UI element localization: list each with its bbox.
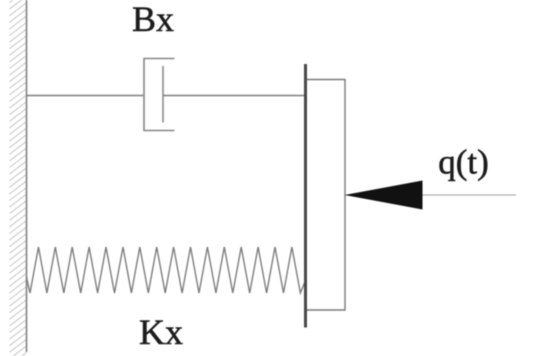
wall <box>26 0 28 352</box>
damper Bx piston <box>162 66 164 123</box>
wire rod left (wall to damper) <box>27 95 145 97</box>
damper Bx cylinder <box>144 59 175 131</box>
svg-text:q(t): q(t) <box>438 142 489 181</box>
wire rod right (piston to mass) <box>163 95 305 97</box>
mass block outline <box>306 80 346 311</box>
wall hatching <box>10 0 27 356</box>
force arrow q(t) head <box>345 181 423 210</box>
svg-text:Bx: Bx <box>132 0 174 39</box>
force arrow q(t) tail <box>423 194 517 196</box>
mass left plate (thick) <box>304 64 307 328</box>
svg-text:Kx: Kx <box>139 312 183 352</box>
spring Kx <box>27 247 307 293</box>
